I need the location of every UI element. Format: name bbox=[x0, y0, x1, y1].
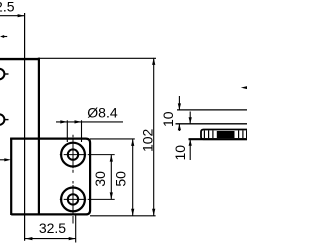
Ø8.4 extension line left bbox=[66, 120, 68, 142]
32.5 bottom arrow left bbox=[25, 237, 32, 240]
arrowhead top dim right bbox=[18, 14, 25, 17]
side view: middle line y=123.8 bbox=[176, 123, 248, 125]
left arrow at y=159.8 pointing right at plate left edge bbox=[0, 159, 5, 161]
upper 10 dim line top segment bbox=[178, 96, 180, 110]
50 arrow bottom bbox=[131, 209, 134, 216]
lower 10 dim line bottom segment bbox=[189, 139, 191, 160]
hole B centerline horizontal bbox=[60, 198, 115, 200]
30 arrow bottom bbox=[110, 192, 113, 199]
left arrow at y=36.5 (cut dimension) bbox=[0, 35, 4, 38]
svg-text:10: 10 bbox=[172, 145, 188, 161]
top-right cut mark bbox=[241, 86, 247, 89]
bar tick 4 bbox=[238, 130, 240, 138]
side view: top line y=109.9 bbox=[177, 109, 247, 111]
centerline tick lower left hole bbox=[5, 119, 9, 121]
svg-text:30: 30 bbox=[92, 171, 108, 187]
counterbore hole B inner bbox=[68, 194, 78, 204]
extension/edge line V1 x=24.6 bbox=[24, 13, 26, 241]
hole (left leaf, upper, cut at edge) bbox=[0, 69, 4, 80]
102 arrow bottom bbox=[152, 209, 155, 216]
Ø8.4 extension line right bbox=[81, 120, 83, 142]
svg-text:32.5: 32.5 bbox=[0, 0, 15, 15]
50 dim line bbox=[132, 139, 134, 216]
32.5 bottom dim line bbox=[25, 238, 76, 240]
bar tick 5 bbox=[242, 130, 244, 138]
bar filled block (pin section) bbox=[217, 131, 235, 138]
bar tick 6 bbox=[246, 130, 248, 138]
hole (left leaf, lower, cut at edge) bbox=[0, 114, 4, 125]
lower 10 arrow up bbox=[189, 139, 192, 146]
svg-text:102: 102 bbox=[139, 128, 155, 152]
svg-text:10: 10 bbox=[160, 111, 176, 127]
svg-text:32.5: 32.5 bbox=[39, 220, 66, 236]
svg-text:50: 50 bbox=[113, 171, 129, 187]
30 arrow top bbox=[110, 155, 113, 162]
bar tick 2 bbox=[208, 130, 210, 138]
dimension line top 32.5 bbox=[0, 15, 24, 17]
32.5 bottom right extension line bbox=[75, 215, 77, 243]
102 dim line bbox=[153, 58, 155, 216]
Ø8.4 arrow 1 bbox=[60, 120, 67, 123]
32.5 bottom arrow right bbox=[69, 237, 76, 240]
part top edge (thick) bbox=[0, 58, 40, 60]
Ø8.4 leader/dim line bbox=[56, 121, 123, 123]
bottom plate outline (top edge, right edge, bottom edge, rounded corners) bbox=[10, 139, 90, 215]
50 arrow top bbox=[131, 139, 134, 146]
top edge extension to 102 dim (thin) bbox=[39, 57, 156, 59]
counterbore hole A inner bbox=[68, 149, 78, 159]
bottom plate left edge V3 bbox=[10, 139, 12, 216]
upper 10 arrow up bbox=[178, 124, 181, 131]
102 arrow top bbox=[152, 58, 155, 65]
hole B centerline vertical bbox=[72, 181, 74, 224]
Ø8.4 arrow 2 bbox=[75, 120, 82, 123]
side view: plate bar outline bbox=[201, 130, 248, 140]
hole A centerline vertical bbox=[72, 135, 74, 173]
upper 10 dim line bottom segment bbox=[178, 124, 180, 131]
30 dim line bbox=[110, 155, 112, 200]
part right edge V2 x=38.9 bbox=[38, 58, 40, 216]
counterbore hole B outer bbox=[61, 188, 85, 212]
lower 10 arrow down bbox=[189, 117, 192, 124]
svg-text:Ø8.4: Ø8.4 bbox=[87, 105, 118, 121]
upper 10 arrow down bbox=[178, 103, 181, 110]
lower 10 dim line top segment bbox=[189, 112, 191, 124]
bar tick 3 bbox=[212, 130, 214, 138]
hole A centerline horizontal bbox=[60, 154, 115, 156]
counterbore hole A outer bbox=[61, 143, 85, 167]
centerline tick upper left hole bbox=[5, 73, 9, 75]
side view: bottom edge y=139.2 (thick) bbox=[189, 138, 248, 140]
bottom edge extension to 102 dim (thin) bbox=[90, 215, 156, 217]
bar tick 1 bbox=[203, 130, 205, 138]
top edge extension to 50 dim (thin) bbox=[90, 138, 135, 140]
